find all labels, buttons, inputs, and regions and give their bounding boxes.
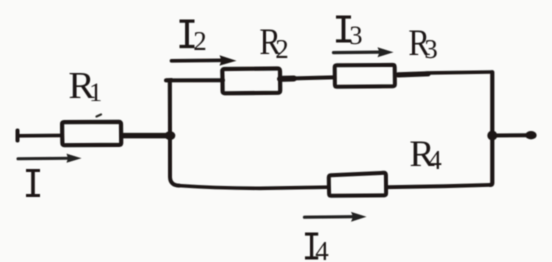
- label I3: [336, 16, 363, 51]
- wire R4 to right corner: [388, 185, 492, 187]
- resistor R3: [335, 65, 395, 87]
- wire left vertical branch: [166, 80, 179, 186]
- wire right vertical branch: [490, 72, 492, 185]
- arrow I: [18, 154, 82, 163]
- pen tick: [97, 115, 102, 117]
- svg-text:2: 2: [193, 26, 207, 56]
- svg-text:3: 3: [424, 34, 438, 64]
- label R1: [68, 65, 102, 107]
- svg-text:4: 4: [428, 145, 442, 175]
- label R3: [408, 22, 437, 64]
- label I: [26, 169, 40, 197]
- node A: [165, 131, 176, 140]
- svg-text:4: 4: [315, 236, 329, 262]
- arrow I4: [305, 212, 367, 222]
- wire R1 to node A: [122, 133, 168, 139]
- svg-text:3: 3: [349, 20, 362, 50]
- wire node A to R4: [177, 186, 328, 189]
- input terminal: [16, 131, 20, 141]
- output terminal dot: [525, 131, 536, 139]
- wire R2 to R3: [280, 77, 334, 79]
- output wire: [493, 133, 526, 137]
- resistor R1: [62, 122, 121, 145]
- wire input to R1: [18, 134, 62, 138]
- label R2: [259, 22, 288, 64]
- label I2: [180, 20, 207, 57]
- wire node to R2: [166, 78, 223, 82]
- arrow I2: [172, 55, 237, 65]
- label I4: [305, 233, 329, 262]
- resistor R2: [222, 69, 280, 94]
- resistor R4: [329, 173, 386, 196]
- arrow I3: [334, 47, 394, 57]
- svg-text:1: 1: [89, 77, 102, 107]
- svg-text:2: 2: [275, 34, 289, 64]
- label R4: [409, 134, 442, 175]
- node B: [487, 131, 497, 141]
- wire R3 to right corner: [398, 72, 492, 75]
